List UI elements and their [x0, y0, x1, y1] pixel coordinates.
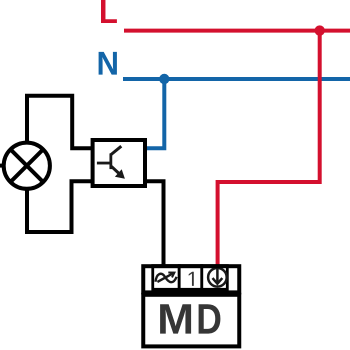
load terminal symbol (wave with arrow) — [156, 273, 177, 283]
wire L right drop to MD terminal (red) — [218, 31, 320, 267]
label MD — [160, 304, 191, 333]
MD terminal cell: 1 — [179, 266, 202, 290]
MD terminal strip outline — [143, 266, 239, 292]
junction dot on N wire — [159, 74, 169, 84]
MD terminal cell: L input — [202, 266, 228, 290]
lamp E1 — [4, 143, 50, 189]
wire lamp top to switch input — [27, 96, 94, 149]
wire N horizontal (blue) — [123, 77, 350, 81]
terminal label 1 — [189, 272, 194, 286]
wire L horizontal (red) — [124, 29, 350, 33]
wire lamp bottom to switch input — [27, 181, 94, 232]
label N — [99, 52, 117, 75]
electronic switch box U1 — [93, 140, 145, 186]
MD terminal cell: load output — [153, 266, 179, 290]
electronic switch symbol — [97, 146, 125, 179]
junction dot on L wire — [315, 25, 325, 35]
label L — [101, 0, 117, 23]
MD box — [143, 295, 239, 347]
wire switch output to MD terminal — [144, 181, 164, 267]
wire lamp left stub — [0, 164, 6, 168]
L input terminal symbol (circle with down arrow) — [208, 267, 227, 286]
wire N vertical drop to switch (blue) — [144, 79, 164, 148]
